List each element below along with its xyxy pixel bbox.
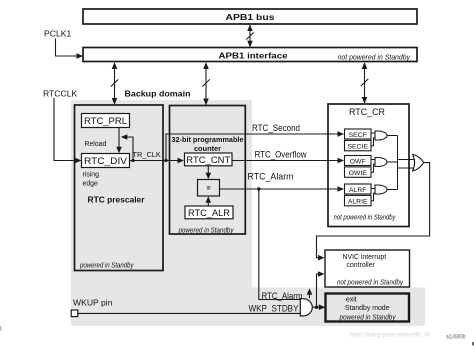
- stray mark left edge: [0, 326, 2, 331]
- backup domain gray region: [71, 100, 252, 288]
- flag ALRIE: [345, 195, 372, 205]
- svg-text:RTC_CR: RTC_CR: [349, 106, 385, 117]
- stray mark bottom-right corner: [472, 342, 474, 346]
- svg-text:RTC_Overflow: RTC_Overflow: [255, 150, 307, 160]
- svg-text:OWF: OWF: [350, 158, 366, 165]
- svg-text:not powered in Standby: not powered in Standby: [334, 214, 396, 221]
- svg-text:TR_CLK: TR_CLK: [133, 150, 161, 159]
- pin WKUP (pad square): [71, 310, 78, 317]
- svg-text:ALRIE: ALRIE: [348, 199, 368, 206]
- flag SECF: [345, 129, 372, 139]
- RTC_CR box: [328, 104, 409, 227]
- wire RTC_Alarm from comparator to ALRF: [220, 186, 345, 192]
- svg-text:OWIE: OWIE: [349, 170, 368, 177]
- svg-text:WKUP pin: WKUP pin: [73, 297, 113, 307]
- svg-text:APB1 bus: APB1 bus: [226, 12, 275, 22]
- wire RTC_PRL reload into RTC_DIV (down arrow): [116, 128, 122, 154]
- AND gate U2 (overflow interrupt): [375, 158, 387, 167]
- flag OWF: [345, 156, 372, 166]
- svg-text:WKP_STDBY: WKP_STDBY: [249, 303, 300, 314]
- svg-text:RTC_PRL: RTC_PRL: [84, 115, 127, 126]
- wire alarm to NVIC (small up arrow): [307, 288, 313, 298]
- svg-text:SECF: SECF: [349, 132, 367, 139]
- svg-text:ALRF: ALRF: [349, 187, 366, 194]
- svg-text:RTC_Alarm: RTC_Alarm: [262, 290, 303, 301]
- svg-text:exit: exit: [346, 296, 357, 303]
- wire RTC_Overflow from RTC_CNT to OWF: [232, 158, 344, 164]
- flag ALRF: [345, 184, 372, 194]
- svg-text:powered in Standby: powered in Standby: [79, 262, 134, 269]
- wire OWIE to AND gate U2: [371, 164, 375, 172]
- svg-text:RTC_Alarm: RTC_Alarm: [248, 171, 294, 181]
- wire wakeup OR output to exit Standby box: [312, 304, 325, 310]
- svg-text:edge: edge: [83, 181, 98, 188]
- svg-text:NVIC interrupt: NVIC interrupt: [343, 254, 387, 261]
- exit Standby mode box: [326, 294, 410, 322]
- register RTC_CNT: [185, 153, 233, 166]
- svg-text:RTC_DIV: RTC_DIV: [84, 155, 128, 166]
- svg-text:counter: counter: [194, 144, 221, 153]
- wire bus stub upper to OR gate: [398, 159, 417, 161]
- wire ALRF to AND gate U3: [371, 188, 375, 190]
- svg-text:RTCCLK: RTCCLK: [43, 88, 77, 98]
- OR gate U5 (exit standby wakeup): [300, 299, 312, 316]
- wire ALRIE to AND gate U3: [371, 193, 375, 200]
- 32-bit programmable counter outer box: [170, 106, 246, 235]
- svg-text:powered in Standby: powered in Standby: [339, 312, 396, 321]
- RTC prescaler outer box: [75, 105, 164, 271]
- wire RTC_Alarm branch down to wakeup OR: [259, 189, 301, 300]
- svg-text:Backup domain: Backup domain: [125, 88, 191, 98]
- bus wire APB1 interface to RTC_CR (double arrow with slash): [361, 62, 369, 104]
- svg-text:ai14969b: ai14969b: [446, 334, 466, 341]
- svg-text:not powered in Standby: not powered in Standby: [338, 54, 411, 61]
- svg-text:controller: controller: [347, 262, 376, 269]
- svg-text:powered in Standby: powered in Standby: [178, 227, 234, 234]
- wire AND U1 output to OR bus: [387, 135, 397, 137]
- svg-text:=: =: [206, 186, 210, 193]
- wire RTC_Second from TR_CLK to SECF: [166, 131, 344, 160]
- OR gate U4 (global RTC interrupt): [413, 154, 424, 171]
- NVIC interrupt controller box: [325, 250, 410, 287]
- svg-text:RTC_ALR: RTC_ALR: [188, 207, 230, 218]
- wire TR_CLK from RTC_DIV to RTC_CNT: [130, 158, 185, 164]
- svg-text:RTC prescaler: RTC prescaler: [88, 196, 145, 205]
- bus wire APB1 bus / APB1 interface (double arrow with slash): [246, 25, 254, 48]
- bus wire APB1 interface to 32-bit counter (double arrow with slash): [202, 62, 210, 105]
- svg-text:Standby mode: Standby mode: [345, 305, 390, 312]
- wire wakeup branch up to NVIC: [317, 271, 325, 307]
- node interrupt OR bus: [397, 136, 399, 190]
- AND gate U3 (alarm interrupt): [375, 185, 387, 194]
- svg-text:Reload: Reload: [85, 141, 107, 148]
- flag OWIE: [345, 167, 372, 177]
- wire RTC_ALR to comparator (up arrow): [206, 196, 212, 206]
- wire SECF to AND gate U1: [371, 132, 375, 134]
- svg-text:PCLK1: PCLK1: [44, 29, 71, 39]
- svg-text:SECIE: SECIE: [347, 144, 368, 151]
- svg-text:32-bit programmable: 32-bit programmable: [172, 135, 244, 144]
- wire RTC_CNT to comparator (down arrow): [206, 166, 212, 179]
- svg-text:not powered in Standby: not powered in Standby: [337, 280, 404, 287]
- svg-text:rising: rising: [83, 172, 100, 179]
- wire AND U3 output to OR bus: [387, 189, 397, 191]
- APB1 bus box: [83, 9, 417, 24]
- wire reload feedback from TR_CLK (left arrow): [121, 134, 135, 162]
- wire RTCCLK to RTC_DIV: [54, 98, 82, 163]
- standby gray band (bottom): [71, 288, 425, 327]
- svg-text:RTC_Second: RTC_Second: [252, 123, 300, 133]
- wire WKP_STDBY from WKUP pin to wakeup OR: [78, 312, 301, 314]
- register RTC_DIV: [82, 154, 130, 168]
- wire OR U4 output to NVIC (routed): [317, 163, 430, 261]
- flag SECIE: [345, 140, 372, 150]
- wire bus stub lower to OR gate: [398, 167, 417, 169]
- comparator = block: [198, 180, 220, 197]
- wire OWF to AND gate U2: [371, 159, 375, 161]
- AND gate U1 (second interrupt): [375, 131, 387, 140]
- svg-text:APB1 interface: APB1 interface: [219, 50, 288, 60]
- bus wire APB1 interface to RTC prescaler (double arrow with slash): [111, 62, 119, 105]
- wire AND U2 output to OR bus: [387, 161, 397, 163]
- wire SECIE to AND gate U1: [371, 138, 375, 146]
- label rising edge: [83, 172, 100, 188]
- svg-text:htips:ǀǀblog.csdn.nel‌nm9K_0f: htips:ǀǀblog.csdn.nel‌nm9K_0f: [350, 332, 430, 339]
- svg-text:RTC_CNT: RTC_CNT: [186, 154, 230, 165]
- register RTC_PRL: [82, 114, 130, 128]
- APB1 interface box: [83, 48, 417, 62]
- wire PCLK1 to APB1 interface: [56, 39, 84, 59]
- register RTC_ALR: [185, 206, 233, 219]
